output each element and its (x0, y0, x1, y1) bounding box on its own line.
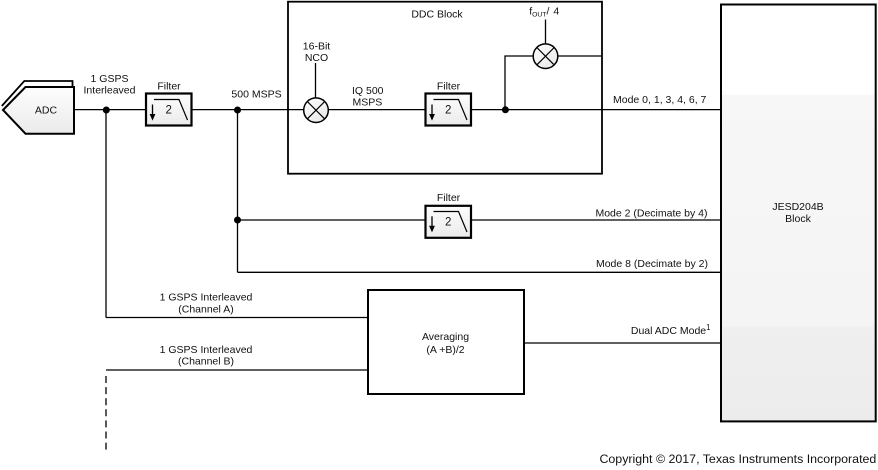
ADC block echo outline (2, 81, 73, 106)
svg-text:fOUT/ 4: fOUT/ 4 (529, 5, 559, 18)
junction: 500 MSPS node (234, 107, 241, 114)
svg-text:ADC: ADC (35, 105, 58, 117)
wire: DDC riser from output node up to fOUT/4 mixer input (505, 56, 533, 110)
svg-text:(A +B)/2: (A +B)/2 (426, 344, 464, 356)
mixer U1: NCO mixer (304, 98, 329, 123)
DDC Block boundary rectangle (288, 2, 602, 174)
svg-text:Mode 8 (Decimate by 2): Mode 8 (Decimate by 2) (596, 258, 708, 270)
filter F2: DDC decimate-by-2 filter block (426, 94, 472, 126)
wire: Mode 8 (Decimate by 2) line to JESD204B block (238, 271, 722, 273)
svg-text:Filter: Filter (437, 81, 461, 93)
junction: Mode 2 branch node (234, 217, 241, 224)
wire: Mode 2 (Decimate by 4) line through decimation filter to JESD204B block (238, 219, 722, 221)
svg-text:Block: Block (785, 213, 811, 225)
svg-text:Interleaved: Interleaved (84, 85, 136, 97)
svg-text:Copyright © 2017, Texas Instru: Copyright © 2017, Texas Instruments Inco… (599, 452, 876, 466)
svg-text:2: 2 (445, 105, 451, 117)
svg-text:16-Bit: 16-Bit (303, 41, 331, 53)
wire: fOUT/4 mixer output to DDC block edge (558, 55, 602, 57)
wire: Dual ADC Mode output from Averaging block to JESD204B block (524, 342, 721, 344)
svg-text:1 GSPS: 1 GSPS (91, 73, 129, 85)
svg-text:Mode 2 (Decimate by 4): Mode 2 (Decimate by 4) (595, 208, 707, 220)
svg-text:IQ 500: IQ 500 (352, 85, 384, 97)
svg-text:JESD204B: JESD204B (772, 201, 823, 213)
label: 16-Bit NCO (303, 41, 331, 65)
svg-text:NCO: NCO (305, 52, 328, 64)
svg-text:1 GSPS Interleaved: 1 GSPS Interleaved (160, 344, 253, 356)
mixer U2: fOUT/4 mixer (533, 44, 558, 69)
wire: vertical drop from 500 MSPS node down to Mode 8 branch (237, 110, 239, 272)
svg-text:Averaging: Averaging (422, 331, 469, 343)
filter F3: Mode 2 decimate-by-2 filter block (426, 206, 472, 238)
filter F1: decimate-by-2 filter block (146, 94, 192, 126)
label: IQ 500 MSPS (352, 85, 384, 109)
svg-text:Filter: Filter (437, 192, 461, 204)
wire: NCO label stem to mixer U1 (315, 63, 317, 98)
svg-text:2: 2 (165, 105, 171, 117)
svg-text:Dual ADC Mode1: Dual ADC Mode1 (631, 323, 711, 337)
wire: Channel A line into Averaging block (106, 317, 368, 319)
wire: fOUT/4 label stem to mixer U2 (545, 20, 547, 45)
junction: DDC output node (502, 106, 509, 113)
junction: node after ADC output (103, 107, 110, 114)
wire: dashed Channel B stub from off-sheet ADC (105, 376, 107, 450)
svg-text:Filter: Filter (157, 81, 181, 93)
label: 1 GSPS Interleaved (ADC output) (84, 73, 136, 97)
svg-text:MSPS: MSPS (353, 97, 383, 109)
wire: Channel A vertical drop from ADC output node (105, 110, 107, 318)
svg-text:Mode 0, 1, 3, 4, 6, 7: Mode 0, 1, 3, 4, 6, 7 (613, 94, 707, 106)
svg-text:1 GSPS Interleaved: 1 GSPS Interleaved (160, 292, 253, 304)
label: 1 GSPS Interleaved (Channel A) (160, 292, 253, 316)
svg-text:(Channel A): (Channel A) (178, 304, 233, 316)
svg-text:DDC Block: DDC Block (411, 9, 463, 21)
Averaging block (368, 290, 524, 394)
label: 1 GSPS Interleaved (Channel B) (160, 344, 253, 367)
ADC block (interleaving ADC pentagon) (3, 87, 74, 134)
svg-text:(Channel B): (Channel B) (178, 356, 234, 368)
svg-text:2: 2 (445, 216, 451, 228)
wire: ADC output main bus to JESD204B block (1 GSPS path, y=110) (74, 109, 721, 111)
svg-text:500 MSPS: 500 MSPS (231, 89, 281, 101)
wire: Channel B line into Averaging block (106, 369, 368, 371)
JESD204B Block (721, 5, 876, 422)
